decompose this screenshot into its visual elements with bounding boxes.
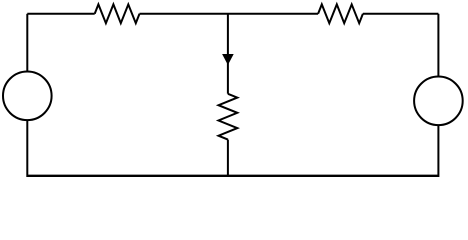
wire bottom horizontal	[27, 175, 438, 177]
wire top-middle horizontal	[140, 13, 319, 15]
wire left lower vertical	[26, 120, 28, 178]
wire top-right horizontal	[363, 13, 439, 15]
wire middle vertical lower	[227, 140, 229, 178]
resistor R2	[318, 4, 363, 23]
source V2	[414, 77, 463, 126]
wire top-left horizontal	[27, 13, 94, 15]
arrowhead current direction	[222, 54, 234, 65]
resistor R1	[95, 4, 140, 23]
wire left upper vertical	[26, 14, 28, 72]
wire right lower vertical	[437, 125, 439, 178]
wire right upper vertical	[437, 14, 439, 77]
wire middle vertical upper	[227, 14, 229, 94]
resistor R3	[219, 94, 238, 140]
source V1	[3, 72, 52, 121]
